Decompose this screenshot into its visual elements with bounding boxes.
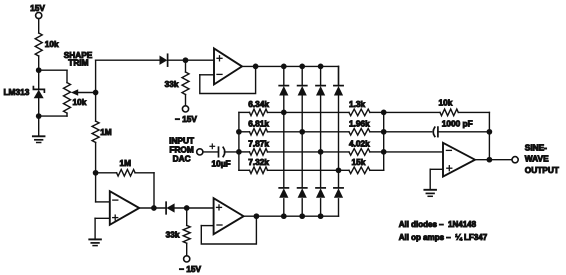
svg-text:10k: 10k [73, 97, 87, 107]
svg-text:OUTPUT: OUTPUT [525, 165, 559, 175]
svg-text:1.96k: 1.96k [349, 119, 370, 129]
svg-text:6.34k: 6.34k [248, 99, 269, 109]
svg-text:1M: 1M [120, 158, 132, 168]
svg-text:1000 pF: 1000 pF [442, 119, 473, 129]
svg-text:LM313: LM313 [3, 87, 29, 97]
svg-text:6.81k: 6.81k [248, 119, 269, 129]
svg-text:15V: 15V [30, 3, 45, 13]
svg-text:All diodes – 1N4148: All diodes – 1N4148 [399, 220, 477, 229]
svg-text:− 15V: − 15V [179, 264, 201, 274]
svg-text:All op amps – ¼ LF347: All op amps – ¼ LF347 [399, 233, 488, 242]
svg-text:TRIM: TRIM [68, 57, 88, 67]
svg-text:1.3k: 1.3k [349, 99, 366, 109]
svg-text:33k: 33k [166, 230, 180, 240]
svg-text:7.32k: 7.32k [248, 157, 269, 167]
svg-text:1M: 1M [100, 127, 112, 137]
svg-text:WAVE: WAVE [525, 153, 549, 163]
svg-text:10µF: 10µF [212, 159, 231, 169]
svg-text:DAC: DAC [173, 153, 191, 163]
svg-text:− 15V: − 15V [175, 114, 197, 124]
svg-text:15k: 15k [352, 157, 366, 167]
svg-text:7.87k: 7.87k [248, 139, 269, 149]
svg-text:4.02k: 4.02k [349, 139, 370, 149]
svg-text:SINE-: SINE- [525, 143, 547, 153]
svg-text:10k: 10k [45, 39, 59, 49]
svg-text:10k: 10k [439, 97, 453, 107]
svg-text:33k: 33k [165, 79, 179, 89]
